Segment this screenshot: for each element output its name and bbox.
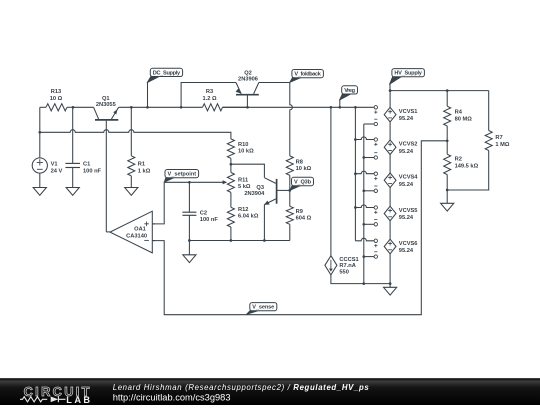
svg-text:Vreg: Vreg: [344, 88, 355, 94]
net flag V_setpoint: [164, 170, 198, 183]
voltage source V1: [32, 132, 62, 187]
svg-text:Lenard Hirshman (Researchsuppo: Lenard Hirshman (Researchsupportspec2) /…: [113, 383, 370, 392]
svg-text:550: 550: [339, 269, 349, 275]
resistor R4: [444, 91, 473, 141]
svg-text:V1: V1: [51, 162, 58, 168]
ground for C1: [66, 187, 79, 195]
svg-text:R4: R4: [455, 110, 463, 116]
wire VCVS output chain: [389, 91, 391, 284]
ground for R1: [125, 176, 138, 195]
svg-text:2N3906: 2N3906: [238, 76, 258, 82]
wire stack bottom rail: [331, 275, 390, 284]
wire VCVS5 + stub: [355, 205, 374, 208]
terminal VCVS1 - control: [374, 119, 377, 126]
resistor R9: [286, 190, 311, 240]
dependent source VCVS6: [384, 239, 417, 254]
resistor R2: [444, 141, 479, 190]
dependent source VCVS1: [384, 107, 417, 122]
ground for V1: [33, 187, 46, 195]
terminal VCVS2 - control: [374, 153, 377, 160]
resistor R1: [128, 156, 151, 176]
wire CCCS1 top branch: [330, 107, 332, 255]
svg-text:V_sense: V_sense: [252, 305, 274, 311]
capacitor C1: [65, 162, 101, 188]
net flag Vreg: [339, 86, 357, 108]
wire R10/R11 junction to Q3 collector: [231, 164, 265, 177]
resistor R3: [202, 89, 247, 111]
terminal VCVS5 + control: [374, 206, 377, 214]
svg-text:R9: R9: [296, 209, 303, 215]
svg-text:604 Ω: 604 Ω: [296, 215, 312, 221]
svg-text:6.04 kΩ: 6.04 kΩ: [238, 214, 259, 220]
svg-text:10 Ω: 10 Ω: [50, 96, 63, 102]
wire Q2 collector to V_foldback / R8: [259, 83, 293, 156]
svg-text:LAB: LAB: [66, 395, 90, 405]
svg-text:VCVS6: VCVS6: [399, 241, 418, 247]
wire V_sense net: op-amp - input / divider tap: [152, 141, 447, 315]
resistor R7: [485, 131, 510, 151]
svg-text:1.2 Ω: 1.2 Ω: [202, 96, 216, 102]
svg-text:CA3140: CA3140: [126, 233, 147, 239]
svg-text:2N3055: 2N3055: [96, 102, 116, 108]
wire VCVS2 - stub: [364, 157, 374, 159]
svg-text:95.24: 95.24: [399, 215, 414, 221]
svg-text:HV_Supply: HV_Supply: [394, 71, 422, 77]
svg-text:V_Q3b: V_Q3b: [294, 180, 312, 186]
svg-text:10 kΩ: 10 kΩ: [296, 166, 312, 172]
footer bar with CircuitLab logo and title: [0, 378, 540, 405]
svg-text:80 MΩ: 80 MΩ: [455, 117, 473, 123]
wire VCVS5 - stub: [364, 223, 374, 225]
wire VCVS + control rail (Vreg): [354, 107, 356, 241]
svg-text:100 nF: 100 nF: [83, 169, 102, 175]
wire V1/R13-left to setpoint-divider rail: [40, 107, 231, 139]
wire HV_Supply rail: [390, 90, 489, 92]
net flag DC_Supply: [147, 68, 183, 107]
svg-text:R1: R1: [138, 162, 145, 168]
net flag V_sense: [246, 303, 277, 315]
wire R1 top branch: [130, 107, 132, 156]
transistor Q1 (2N3055): [94, 96, 119, 120]
terminal VCVS1 + control: [374, 106, 377, 114]
svg-text:R7: R7: [495, 135, 502, 141]
svg-text:VCVS5: VCVS5: [399, 208, 418, 214]
ground for R2 bottom: [441, 190, 454, 211]
svg-text:VCVS2: VCVS2: [399, 142, 418, 148]
dependent source VCVS2: [384, 140, 417, 155]
svg-text:CCCS1: CCCS1: [339, 257, 358, 263]
svg-text:95.24: 95.24: [399, 116, 414, 122]
svg-text:R10: R10: [238, 142, 248, 148]
terminal VCVS4 - control: [374, 186, 377, 193]
svg-text:R3: R3: [206, 89, 213, 95]
svg-text:V_foldback: V_foldback: [294, 72, 321, 78]
svg-text:95.24: 95.24: [399, 149, 414, 155]
transistor Q3 (2N3904): [244, 178, 289, 241]
wire VCVS - control rail: [363, 124, 365, 284]
wire Vreg net: R3 right to VCVS1 + terminal: [223, 106, 375, 108]
dependent source CCCS1: [325, 256, 359, 276]
svg-text:R7.nA: R7.nA: [339, 263, 355, 269]
dependent source VCVS5: [384, 206, 417, 221]
resistor R12: [227, 192, 258, 240]
potentiometer R11 (wiper arrow): [223, 164, 251, 192]
terminal VCVS2 + control: [374, 138, 377, 146]
svg-text:http://circuitlab.com/cs3g983: http://circuitlab.com/cs3g983: [113, 392, 231, 402]
wire VCVS6 - stub: [364, 256, 374, 258]
wire mid bottom rail: C2 / R12 / Q3 emitter / R9: [189, 240, 289, 242]
op-amp OA1 (CA3140): [110, 211, 155, 253]
wire V_setpoint net: op-amp + input to R11 wiper: [152, 182, 224, 224]
wire R7 branch: [447, 91, 489, 190]
svg-text:V_setpoint: V_setpoint: [168, 172, 197, 178]
svg-text:95.24: 95.24: [399, 182, 414, 188]
svg-text:24 V: 24 V: [51, 169, 63, 175]
svg-text:OA1: OA1: [134, 227, 146, 233]
net flag HV_Supply: [389, 69, 424, 91]
svg-text:C2: C2: [200, 211, 207, 217]
svg-text:R2: R2: [455, 156, 462, 162]
wire VCVS2 + stub: [355, 137, 374, 140]
wire VCVS4 + stub: [355, 171, 374, 174]
terminal VCVS6 + control: [374, 239, 377, 247]
svg-text:10 kΩ: 10 kΩ: [238, 148, 254, 154]
resistor R10: [227, 139, 254, 164]
ground for VCVS stack: [384, 284, 397, 296]
wire VCVS4 - stub: [364, 190, 374, 192]
ground for C2: [183, 241, 196, 263]
svg-text:R12: R12: [238, 207, 248, 213]
capacitor C2: [182, 182, 218, 240]
terminal VCVS6 - control: [374, 252, 377, 259]
wire DC_Supply branch up to Q2 emitter: [181, 83, 236, 108]
resistor R8: [286, 156, 311, 191]
net flag V_foldback: [290, 70, 324, 83]
svg-text:149.5 kΩ: 149.5 kΩ: [455, 163, 479, 169]
wire node A: R13 right / Q1 collector / C1 top: [73, 107, 94, 163]
wire Q1 base / op-amp output: [106, 121, 110, 232]
svg-text:1 kΩ: 1 kΩ: [138, 169, 151, 175]
svg-text:VCVS4: VCVS4: [399, 175, 418, 181]
terminal VCVS4 + control: [374, 172, 377, 180]
svg-text:R8: R8: [296, 160, 303, 166]
svg-text:1 MΩ: 1 MΩ: [495, 142, 509, 148]
svg-text:Q2: Q2: [244, 70, 252, 76]
svg-text:DC_Supply: DC_Supply: [153, 70, 181, 76]
transistor Q2 (2N3906): [236, 70, 259, 107]
wire VCVS6 + stub: [355, 238, 374, 241]
svg-text:100 nF: 100 nF: [200, 217, 219, 223]
net flag V_Q3b: [290, 177, 314, 190]
wire DC_Supply rail: Q1 emitter to R3 left: [119, 106, 203, 108]
wire VCVS1 - stub: [364, 123, 374, 125]
svg-text:95.24: 95.24: [399, 248, 414, 254]
svg-text:5 kΩ: 5 kΩ: [238, 184, 251, 190]
svg-text:VCVS1: VCVS1: [399, 109, 418, 115]
terminal VCVS5 - control: [374, 220, 377, 227]
svg-text:R13: R13: [51, 89, 61, 95]
resistor R13: [40, 89, 73, 111]
svg-text:R11: R11: [238, 177, 248, 183]
dependent source VCVS4: [384, 173, 418, 188]
svg-text:C1: C1: [83, 162, 90, 168]
svg-text:2N3904: 2N3904: [244, 191, 265, 197]
